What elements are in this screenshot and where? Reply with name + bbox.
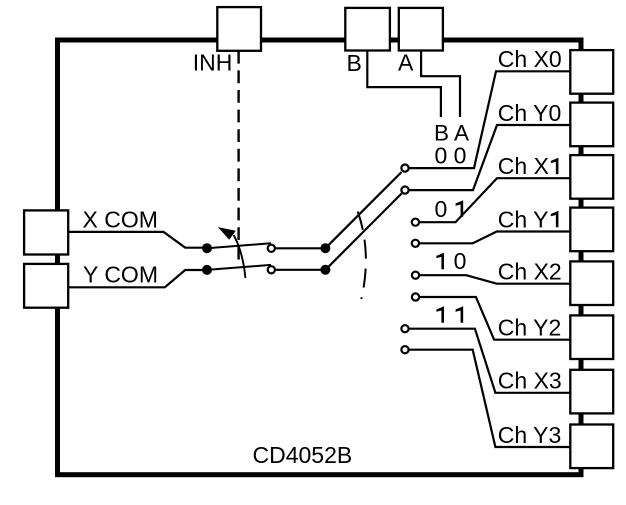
pin box Ch Y1 — [570, 208, 613, 252]
pivot contact X — [268, 245, 275, 252]
contact 01Y — [412, 240, 419, 247]
pivot contact Y — [268, 266, 275, 273]
pin box Ch X3 — [570, 370, 613, 414]
svg-text:Ch X2: Ch X2 — [498, 259, 562, 285]
digit 1 of label Ch X1 — [551, 158, 559, 175]
svg-text:Ch X: Ch X — [498, 153, 549, 179]
wire Y pivot contact to junction — [271, 269, 325, 271]
contact 01X — [412, 219, 419, 226]
wire contact 01Y to Ch Y1 — [416, 232, 570, 244]
contact 00X — [401, 165, 408, 172]
svg-text:0: 0 — [435, 196, 448, 222]
INH control dashed line — [237, 51, 239, 261]
pin box Ch X1 — [570, 155, 613, 199]
IC body outline CD4052B — [58, 40, 582, 475]
pin box X COM — [24, 210, 68, 254]
wire contact 00Y to Ch Y0 — [406, 125, 570, 190]
contact 11X — [401, 325, 408, 332]
wire B pin to B A label — [367, 51, 441, 118]
digit 1 of label Ch Y1 — [551, 211, 559, 228]
wire diagonal Y junction to 0 0 contact — [325, 193, 401, 269]
junction dot Y pole — [202, 265, 212, 275]
pin box Ch X0 — [570, 50, 613, 94]
svg-text:Ch Y3: Ch Y3 — [498, 422, 562, 448]
svg-text:Ch Y0: Ch Y0 — [498, 100, 562, 126]
pin box B — [345, 8, 390, 51]
wire diagonal X junction to 0 0 contact — [325, 172, 401, 248]
pin box Ch Y0 — [570, 103, 613, 147]
digit 1 of code 1 0 — [436, 253, 444, 270]
switch wiper arm X — [207, 243, 271, 248]
wire X COM input — [67, 232, 207, 248]
wire A pin to B A label — [421, 51, 460, 118]
dashed travel arc — [358, 212, 366, 300]
svg-text:Ch X0: Ch X0 — [498, 46, 562, 72]
svg-text:A: A — [398, 50, 414, 76]
svg-text:Y COM: Y COM — [83, 262, 158, 288]
contact 00Y — [401, 187, 408, 194]
pin box Ch X2 — [570, 261, 613, 305]
svg-text:X COM: X COM — [83, 206, 158, 232]
junction dot X pole — [202, 243, 212, 253]
svg-text:Ch Y2: Ch Y2 — [498, 315, 562, 341]
wire contact 01X to Ch X1 — [416, 178, 570, 222]
rotation arc with arrow — [234, 235, 246, 278]
digit 1 of code 1 1 (second) — [456, 306, 464, 323]
svg-text:0 0: 0 0 — [435, 143, 467, 169]
contact 10X — [412, 272, 419, 279]
pin box A — [399, 8, 443, 51]
svg-text:CD4052B: CD4052B — [253, 442, 353, 468]
svg-text:0: 0 — [454, 248, 467, 274]
wire Y COM input — [67, 270, 207, 287]
wire X pivot contact to junction — [271, 247, 325, 249]
junction dot Y diagonal — [320, 265, 330, 275]
wire contact 11X to Ch X3 — [406, 329, 571, 393]
rotation arrowhead — [218, 227, 236, 240]
contact 11Y — [401, 346, 408, 353]
pin box Ch Y2 — [570, 315, 613, 359]
junction dot X diagonal — [320, 243, 330, 253]
pin box Y COM — [24, 264, 68, 308]
svg-text:Ch X3: Ch X3 — [498, 368, 562, 394]
digit 1 of code 1 1 (first) — [436, 306, 444, 323]
wire contact 10Y to Ch Y2 — [416, 297, 570, 340]
svg-text:B: B — [347, 50, 362, 76]
pin box Ch Y3 — [570, 425, 613, 469]
wire contact 10X to Ch X2 — [416, 275, 570, 284]
svg-text:Ch Y: Ch Y — [498, 206, 549, 232]
contact 10Y — [412, 293, 419, 300]
digit 1 of code 0 1 — [456, 200, 464, 217]
svg-text:INH: INH — [193, 50, 233, 76]
wire contact 11Y to Ch Y3 — [406, 350, 571, 447]
wire contact 00X to Ch X0 — [406, 71, 570, 168]
pin box INH — [217, 7, 261, 51]
switch wiper arm Y — [207, 265, 271, 270]
